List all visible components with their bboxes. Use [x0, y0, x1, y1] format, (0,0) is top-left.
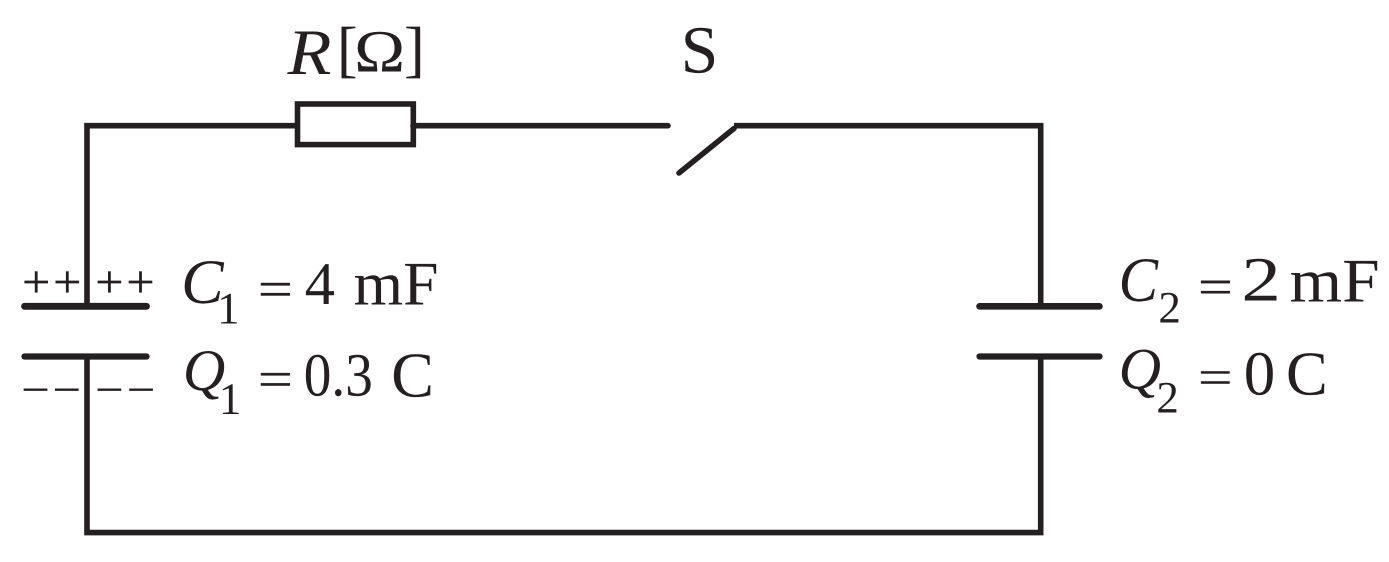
resistor R — [298, 104, 414, 145]
svg-text:0.3: 0.3 — [304, 342, 373, 410]
svg-text:]: ] — [404, 14, 425, 84]
svg-text:1: 1 — [219, 374, 242, 424]
svg-text:S: S — [681, 12, 719, 87]
equals R1 — [1201, 281, 1230, 294]
svg-text:mF: mF — [1290, 247, 1380, 315]
capacitor C1 bottom plate — [25, 353, 147, 359]
capacitor C2 top plate — [980, 303, 1100, 310]
svg-text:1: 1 — [217, 283, 240, 333]
wire: switch right contact to top-right corner, down to C2 — [734, 126, 1041, 304]
svg-text:2: 2 — [1241, 245, 1281, 315]
svg-text:C: C — [1286, 338, 1328, 408]
svg-text:2: 2 — [1156, 373, 1179, 423]
equals L2 — [261, 373, 290, 386]
wire: left vertical upper + top wire to resistor — [87, 126, 297, 305]
svg-text:Ω: Ω — [354, 19, 405, 85]
svg-text:2: 2 — [1158, 282, 1181, 332]
svg-text:4: 4 — [305, 251, 335, 318]
minus charges under C1 bottom plate — [24, 389, 153, 391]
svg-text:C: C — [1119, 244, 1159, 315]
equals R2 — [1201, 371, 1230, 384]
svg-text:0: 0 — [1244, 339, 1276, 409]
svg-text:R: R — [286, 17, 331, 89]
equals L1 — [261, 283, 290, 296]
wire: C2 bottom, right side down, bottom wire, up to C1 bottom plate — [87, 355, 1041, 533]
svg-text:Q: Q — [1119, 336, 1161, 402]
wire: resistor to switch left contact — [413, 123, 668, 129]
switch S blade (open) — [679, 129, 734, 174]
capacitor C2 bottom plate — [980, 353, 1100, 359]
plus charges on C1 top plate — [24, 271, 152, 292]
svg-text:mF: mF — [354, 250, 439, 318]
svg-text:C: C — [391, 340, 434, 411]
capacitor C1 top plate — [25, 303, 147, 310]
